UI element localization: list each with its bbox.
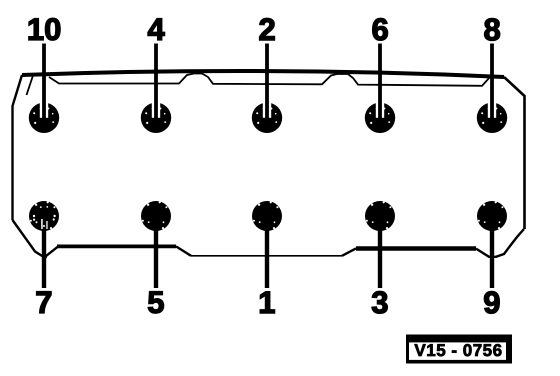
svg-text:6: 6 xyxy=(371,12,388,47)
svg-text:7: 7 xyxy=(35,285,52,320)
svg-text:8: 8 xyxy=(483,12,500,47)
svg-text:3: 3 xyxy=(371,285,388,320)
svg-text:9: 9 xyxy=(483,285,500,320)
svg-text:4: 4 xyxy=(147,12,165,47)
svg-text:10: 10 xyxy=(27,12,62,47)
svg-text:V15 - 0756: V15 - 0756 xyxy=(414,341,502,360)
svg-text:5: 5 xyxy=(147,285,164,320)
svg-text:1: 1 xyxy=(258,285,275,320)
svg-text:2: 2 xyxy=(258,12,275,47)
